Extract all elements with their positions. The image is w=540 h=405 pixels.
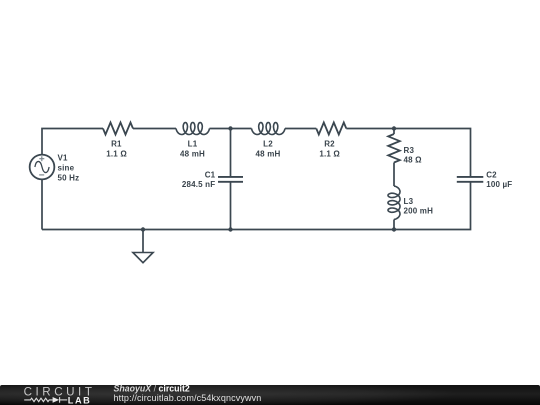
wire V1 bottom to bottom rail [41, 179, 43, 229]
inductor L2 [252, 123, 286, 135]
junction node B (top R3) [392, 126, 396, 130]
voltage source V1 [30, 155, 55, 180]
svg-text:48 mH: 48 mH [180, 149, 205, 158]
logo diode symbol [53, 397, 60, 403]
junction C1 bottom [228, 227, 232, 231]
svg-text:48 Ω: 48 Ω [404, 155, 423, 164]
svg-text:R1: R1 [111, 139, 122, 148]
svg-text:100 µF: 100 µF [486, 180, 512, 189]
junction node A (top C1) [228, 126, 232, 130]
svg-text:V1: V1 [58, 153, 69, 162]
svg-text:LAB: LAB [68, 396, 92, 405]
resistor R1 [103, 123, 133, 135]
wire L2 to R2 [285, 128, 316, 130]
svg-text:50 Hz: 50 Hz [58, 173, 80, 182]
resistor R3 [388, 134, 400, 163]
wire top rail left (V1 to R1) [42, 129, 103, 155]
svg-text:R3: R3 [404, 146, 415, 155]
svg-text:1.1 Ω: 1.1 Ω [319, 149, 340, 158]
svg-text:C1: C1 [205, 170, 216, 179]
wire R1 to L1 [133, 128, 176, 130]
wire L1 to node A [210, 128, 252, 130]
resistor R2 [316, 123, 346, 135]
svg-text:C2: C2 [486, 170, 497, 179]
svg-text:284.5 nF: 284.5 nF [182, 180, 215, 189]
svg-text:L1: L1 [188, 139, 198, 148]
svg-text:ShaoyuX / circuit2: ShaoyuX / circuit2 [114, 383, 190, 393]
svg-text:sine: sine [58, 163, 75, 172]
wire node B down to R3 [393, 129, 395, 135]
wire L3 to bottom rail [393, 220, 395, 230]
svg-text:1.1 Ω: 1.1 Ω [106, 149, 127, 158]
wire R2 to node B to top-right corner [346, 129, 470, 177]
capacitor C2 [457, 177, 484, 182]
inductor L3 [388, 186, 400, 220]
ground [133, 230, 153, 263]
wire node A down to C1 [230, 129, 232, 177]
svg-text:R2: R2 [324, 139, 335, 148]
wire C2 bottom to bottom rail [42, 182, 471, 229]
capacitor C1 [218, 177, 243, 182]
svg-text:48 mH: 48 mH [256, 149, 281, 158]
svg-text:L2: L2 [263, 139, 273, 148]
svg-text:200 mH: 200 mH [404, 207, 434, 216]
junction L3 bottom [392, 227, 396, 231]
wire R3 to L3 [393, 163, 395, 187]
junction ground node [141, 227, 145, 231]
logo resistor squiggle [24, 397, 67, 403]
svg-text:L3: L3 [404, 197, 414, 206]
inductor L1 [176, 123, 210, 135]
wire C1 to bottom rail [230, 182, 232, 229]
svg-text:http://circuitlab.com/c54kxqnc: http://circuitlab.com/c54kxqncvywvn [114, 393, 262, 403]
